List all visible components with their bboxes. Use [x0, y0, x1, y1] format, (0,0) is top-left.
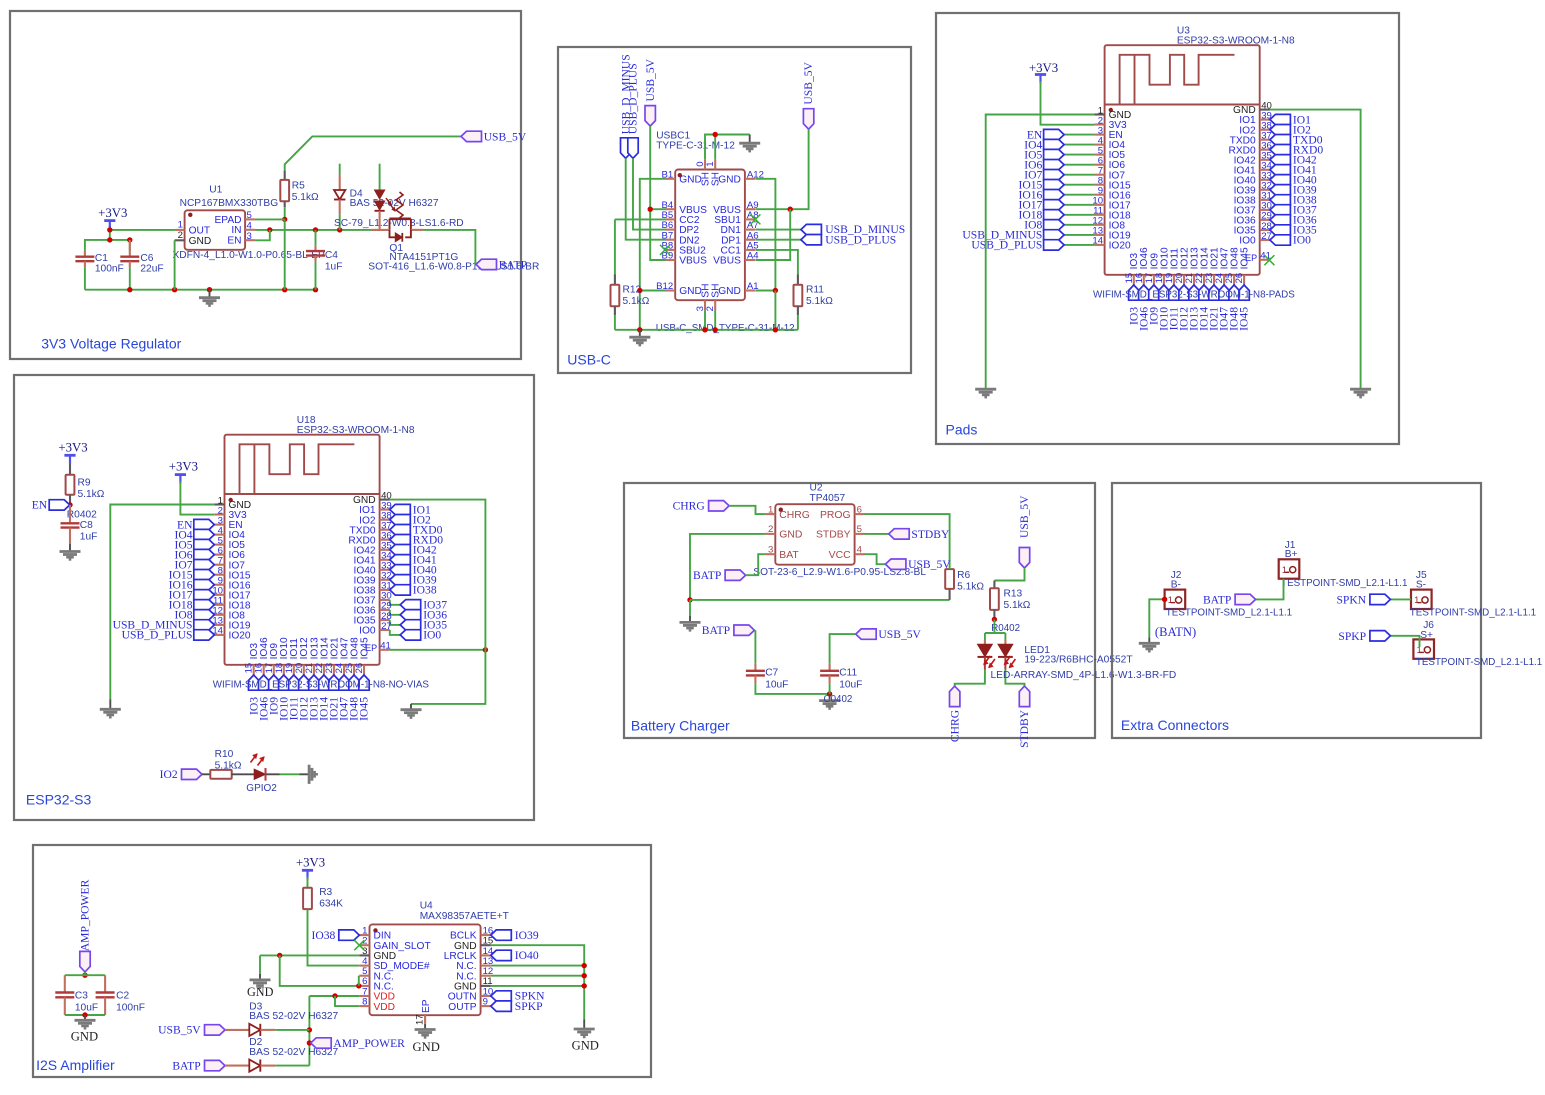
svg-text:+3V3: +3V3: [296, 856, 325, 870]
svg-text:10uF: 10uF: [75, 1002, 98, 1013]
svg-text:USB-C: USB-C: [567, 352, 611, 368]
svg-text:IN: IN: [231, 225, 241, 236]
svg-text:SPKN: SPKN: [1336, 593, 1366, 606]
svg-text:Battery Charger: Battery Charger: [631, 718, 730, 734]
svg-text:STDBY: STDBY: [816, 530, 851, 541]
svg-text:IO38: IO38: [413, 584, 437, 597]
svg-text:NCP167BMX330TBG: NCP167BMX330TBG: [180, 198, 279, 209]
svg-text:5: 5: [247, 210, 252, 221]
svg-text:1uF: 1uF: [80, 532, 98, 543]
svg-text:R10: R10: [215, 749, 234, 760]
svg-text:17: 17: [415, 1014, 426, 1025]
svg-text:TESTPOINT-SMD_L2.1-L1.1: TESTPOINT-SMD_L2.1-L1.1: [1410, 607, 1536, 618]
svg-text:AMP_POWER: AMP_POWER: [79, 879, 92, 951]
svg-text:TESTPOINT-SMD_L2.1-L1.1: TESTPOINT-SMD_L2.1-L1.1: [1281, 578, 1407, 589]
svg-text:R9: R9: [78, 478, 91, 489]
svg-text:S-: S-: [1416, 580, 1426, 591]
svg-text:LED-ARRAY-SMD_4P-L1.6-W1.3-BR-: LED-ARRAY-SMD_4P-L1.6-W1.3-BR-FD: [991, 670, 1177, 681]
svg-text:USB_5V: USB_5V: [878, 628, 921, 641]
svg-text:10uF: 10uF: [765, 679, 788, 690]
svg-text:1: 1: [1414, 595, 1419, 605]
svg-text:5: 5: [857, 524, 862, 535]
svg-text:1: 1: [768, 504, 773, 515]
svg-text:GND: GND: [71, 1029, 98, 1043]
svg-text:SPKP: SPKP: [1338, 630, 1366, 643]
svg-text:IO39: IO39: [515, 929, 539, 942]
svg-text:IO20: IO20: [229, 631, 251, 642]
svg-text:BATP: BATP: [702, 624, 730, 637]
svg-text:USB_5V: USB_5V: [908, 558, 951, 571]
svg-text:10uF: 10uF: [839, 679, 862, 690]
svg-text:C0402: C0402: [824, 694, 853, 705]
svg-text:1uF: 1uF: [325, 262, 343, 273]
svg-text:8: 8: [362, 997, 367, 1008]
svg-text:22uF: 22uF: [140, 264, 163, 275]
svg-text:1: 1: [1168, 595, 1173, 605]
svg-text:IO38: IO38: [311, 929, 335, 942]
svg-text:R3: R3: [319, 887, 332, 898]
svg-text:GND: GND: [189, 236, 212, 247]
svg-text:GND: GND: [718, 174, 741, 185]
svg-text:CHRG: CHRG: [673, 500, 706, 513]
svg-text:S+: S+: [1420, 630, 1433, 641]
svg-text:EN: EN: [32, 499, 48, 512]
svg-text:BAS 52-02V H6327: BAS 52-02V H6327: [249, 1011, 338, 1022]
svg-text:STDBY: STDBY: [911, 528, 950, 541]
svg-text:100nF: 100nF: [95, 264, 124, 275]
svg-text:GND: GND: [779, 530, 802, 541]
svg-text:5.1kΩ: 5.1kΩ: [623, 296, 650, 307]
svg-text:XDFN-4_L1.0-W1.0-P0.65-BL-EP: XDFN-4_L1.0-W1.0-P0.65-BL-EP: [173, 250, 326, 261]
svg-text:B+: B+: [1285, 549, 1298, 560]
svg-text:EP: EP: [421, 999, 432, 1013]
svg-text:ESP32-S3-WROOM-1-N8: ESP32-S3-WROOM-1-N8: [1177, 35, 1295, 46]
svg-text:BATP: BATP: [172, 1059, 200, 1072]
svg-text:I2S Amplifier: I2S Amplifier: [36, 1057, 115, 1073]
svg-text:VBUS: VBUS: [713, 256, 741, 267]
svg-text:EPAD: EPAD: [215, 215, 242, 226]
svg-text:USB_D_PLUS: USB_D_PLUS: [825, 233, 896, 246]
svg-text:ESP32-S3-WROOM-1-N8: ESP32-S3-WROOM-1-N8: [297, 425, 415, 436]
svg-text:ESP32-S3: ESP32-S3: [26, 792, 92, 808]
svg-text:Pads: Pads: [946, 422, 978, 438]
svg-text:USB_5V: USB_5V: [644, 58, 657, 101]
svg-text:IO2: IO2: [160, 768, 178, 781]
svg-text:+3V3: +3V3: [58, 440, 87, 454]
svg-text:IO45: IO45: [1238, 307, 1251, 331]
svg-text:5.1kΩ: 5.1kΩ: [957, 581, 984, 592]
svg-text:C11: C11: [839, 668, 857, 679]
svg-text:SPKP: SPKP: [515, 1000, 543, 1013]
svg-text:26: 26: [1234, 273, 1245, 284]
svg-text:R12: R12: [623, 284, 642, 295]
svg-text:TP4057: TP4057: [810, 493, 846, 504]
svg-text:USB_D_PLUS: USB_D_PLUS: [627, 63, 640, 134]
svg-text:2: 2: [768, 524, 773, 535]
svg-text:TYPE-C-31-M-12: TYPE-C-31-M-12: [656, 140, 735, 151]
svg-text:STDBY: STDBY: [1018, 709, 1031, 748]
svg-text:C1: C1: [95, 253, 108, 264]
svg-text:5.1kΩ: 5.1kΩ: [215, 760, 242, 771]
svg-text:GND: GND: [413, 1040, 440, 1054]
svg-text:AMP_POWER: AMP_POWER: [333, 1037, 405, 1050]
svg-text:IO0: IO0: [1239, 236, 1256, 247]
svg-text:OUT: OUT: [189, 225, 211, 236]
svg-text:IO40: IO40: [515, 949, 539, 962]
svg-text:R0402: R0402: [67, 509, 97, 520]
svg-text:C3: C3: [75, 991, 88, 1002]
svg-text:IO0: IO0: [423, 629, 441, 642]
svg-text:9: 9: [483, 997, 488, 1008]
svg-text:EP: EP: [365, 643, 377, 653]
svg-text:IO0: IO0: [359, 626, 376, 637]
svg-text:VDD: VDD: [374, 1002, 396, 1013]
svg-text:GND: GND: [718, 286, 741, 297]
svg-text:GND: GND: [679, 286, 702, 297]
svg-text:U1: U1: [209, 184, 222, 195]
svg-text:WIFIM-SMD_ESP32-S3-WROOM-1-N8-: WIFIM-SMD_ESP32-S3-WROOM-1-N8-NO-VIAS: [213, 679, 430, 690]
svg-text:3V3 Voltage Regulator: 3V3 Voltage Regulator: [41, 336, 181, 352]
svg-text:VCC: VCC: [829, 550, 851, 561]
svg-text:6: 6: [857, 504, 862, 515]
svg-text:+3V3: +3V3: [98, 206, 127, 220]
svg-text:5.1kΩ: 5.1kΩ: [292, 192, 319, 203]
svg-text:BAT: BAT: [779, 550, 799, 561]
svg-text:1: 1: [705, 161, 716, 166]
svg-text:1: 1: [1282, 565, 1287, 575]
svg-text:GND: GND: [247, 985, 274, 999]
svg-text:100nF: 100nF: [116, 1002, 145, 1013]
svg-text:SH: SH: [711, 284, 722, 298]
svg-text:TESTPOINT-SMD_L2.1-L1.1: TESTPOINT-SMD_L2.1-L1.1: [1166, 607, 1292, 618]
svg-text:U4: U4: [420, 901, 433, 912]
svg-text:GND: GND: [572, 1039, 599, 1053]
svg-text:2: 2: [178, 230, 183, 241]
svg-text:3: 3: [247, 231, 252, 242]
svg-text:CHRG: CHRG: [779, 510, 810, 521]
svg-text:R5: R5: [292, 180, 305, 191]
svg-text:(BATN): (BATN): [1155, 625, 1196, 639]
svg-text:USB_5V: USB_5V: [1018, 495, 1031, 538]
svg-text:5.1kΩ: 5.1kΩ: [78, 489, 105, 500]
svg-text:USB_D_PLUS: USB_D_PLUS: [122, 629, 193, 642]
svg-text:5.1kΩ: 5.1kΩ: [1004, 600, 1031, 611]
svg-text:4: 4: [857, 544, 863, 555]
svg-text:TESTPOINT-SMD_L2.1-L1.1: TESTPOINT-SMD_L2.1-L1.1: [1416, 657, 1542, 668]
svg-text:USB_5V: USB_5V: [802, 61, 815, 104]
svg-text:4: 4: [247, 220, 253, 231]
svg-text:EP: EP: [1245, 253, 1257, 263]
svg-text:C7: C7: [765, 668, 778, 679]
svg-text:GPIO2: GPIO2: [246, 783, 277, 794]
svg-text:19-223/R6BHC-A0552T: 19-223/R6BHC-A0552T: [1024, 655, 1132, 666]
svg-text:CHRG: CHRG: [948, 709, 961, 742]
svg-text:SH: SH: [711, 172, 722, 186]
svg-text:+3V3: +3V3: [169, 460, 198, 474]
svg-text:634K: 634K: [319, 899, 343, 910]
svg-text:R11: R11: [806, 284, 824, 295]
svg-text:C2: C2: [116, 991, 129, 1002]
svg-text:EN: EN: [227, 236, 241, 247]
svg-text:WIFIM-SMD_ESP32-S3-WROOM-1-N8-: WIFIM-SMD_ESP32-S3-WROOM-1-N8-PADS: [1093, 289, 1295, 300]
svg-text:GND: GND: [679, 174, 702, 185]
svg-text:IO0: IO0: [1293, 234, 1311, 247]
svg-text:BATP: BATP: [499, 259, 527, 272]
svg-text:BATP: BATP: [693, 569, 721, 582]
svg-text:R6: R6: [957, 570, 970, 581]
svg-text:MAX98357AETE+T: MAX98357AETE+T: [420, 911, 509, 922]
svg-text:OUTP: OUTP: [448, 1002, 477, 1013]
svg-text:USB_5V: USB_5V: [484, 131, 527, 144]
svg-text:C6: C6: [140, 253, 153, 264]
svg-text:PROG: PROG: [820, 510, 851, 521]
svg-text:C4: C4: [325, 250, 338, 261]
svg-text:IO20: IO20: [1109, 241, 1131, 252]
svg-text:B-: B-: [1171, 580, 1181, 591]
svg-text:5.1kΩ: 5.1kΩ: [806, 296, 833, 307]
svg-text:26: 26: [354, 663, 365, 674]
svg-text:IO45: IO45: [358, 697, 371, 721]
svg-text:USB_D_PLUS: USB_D_PLUS: [971, 239, 1042, 252]
svg-text:+3V3: +3V3: [1029, 61, 1058, 75]
svg-text:VBUS: VBUS: [679, 256, 707, 267]
svg-text:1: 1: [178, 220, 183, 231]
svg-text:C8: C8: [80, 520, 93, 531]
svg-text:BATP: BATP: [1203, 593, 1231, 606]
svg-text:3: 3: [768, 544, 773, 555]
svg-text:Extra Connectors: Extra Connectors: [1121, 717, 1229, 733]
svg-text:USB_5V: USB_5V: [158, 1024, 201, 1037]
svg-text:R13: R13: [1004, 588, 1023, 599]
